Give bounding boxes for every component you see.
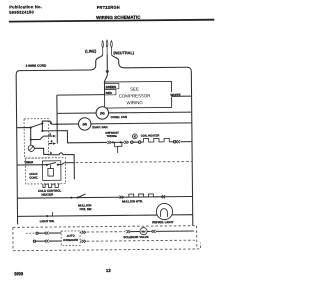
wire to right bus (181, 141, 192, 143)
icemaker right out row 2 (80, 240, 81, 242)
svg-text:COIL HEATER: COIL HEATER (141, 133, 160, 137)
svg-text:(M): (M) (100, 111, 105, 115)
node dot (120, 141, 122, 143)
dashed cabinet line top of machine compartment (13, 226, 197, 228)
plug prong neutral (111, 41, 113, 55)
node junction evap (56, 123, 58, 125)
wire (133, 141, 138, 143)
node dot (46, 164, 48, 166)
svg-text:REFRIG. LIGHT: REFRIG. LIGHT (152, 220, 173, 224)
dashed cabinet border right (196, 226, 198, 249)
lamp refrigerator light (156, 203, 172, 219)
timer switch arm (31, 123, 43, 127)
cold control dashed enclosure (25, 158, 65, 184)
label box GREEN (104, 84, 118, 89)
wire cold control input from bus (17, 164, 47, 166)
wire lamp to bus (172, 214, 193, 216)
svg-text:2: 2 (50, 121, 52, 125)
svg-text:RED: RED (106, 91, 113, 95)
wire timer selector to defrost contact (41, 123, 43, 130)
svg-text:WIRING: WIRING (126, 100, 143, 105)
svg-text:COMPRESSOR: COMPRESSOR (119, 93, 151, 98)
svg-text:HEATER: HEATER (41, 193, 54, 197)
svg-text:(NEUTRAL): (NEUTRAL) (113, 51, 134, 55)
connector chevrons solenoid right (151, 230, 155, 233)
svg-text:ICEMAKER: ICEMAKER (63, 238, 78, 242)
node dot (41, 130, 43, 132)
wire compressor feed left (57, 94, 105, 96)
connector chevrons solenoid left (126, 230, 130, 233)
svg-text:FRT22RGH: FRT22RGH (97, 5, 120, 10)
terminal circle (138, 141, 140, 143)
cold control switch arm (47, 163, 56, 165)
svg-text:COND. FAN: COND. FAN (111, 115, 128, 119)
wire contact 3 to cold control (49, 153, 75, 180)
svg-text:SOLENOID VALVE: SOLENOID VALVE (123, 235, 148, 239)
svg-text:MULLION HTR.: MULLION HTR. (122, 199, 143, 203)
resistor defrost coil heater (141, 138, 174, 142)
svg-text:WV: WV (141, 229, 145, 233)
wire (147, 230, 150, 232)
wire timer common down (30, 128, 32, 146)
wire vertical feeder (56, 95, 58, 143)
wire condenser fan row (57, 112, 192, 113)
wire contact 1 out (31, 136, 53, 140)
icemaker left feed row 2 (33, 240, 35, 242)
wire solenoid to right (156, 230, 194, 232)
connector chevrons mullion left (120, 196, 124, 199)
contact numbers 2 1 4 3 (49, 121, 53, 155)
dashed compartment divider (76, 162, 192, 163)
svg-text:3 WIRE CORD: 3 WIRE CORD (26, 64, 47, 68)
mullion freezer switch (70, 197, 72, 199)
solenoid water valve (140, 228, 147, 235)
plug prong line (102, 41, 104, 55)
wire contact 4 stub (49, 143, 53, 145)
motor evaporator fan (78, 118, 91, 131)
defrost thermostat bimetal (115, 142, 122, 153)
terminal circle (173, 141, 175, 143)
wire neutral cord to right bus (112, 54, 193, 227)
connector chevrons defrost left (107, 141, 111, 144)
timer motor (28, 145, 34, 151)
label box RED (104, 90, 115, 95)
plug prong ground (106, 40, 108, 54)
terminal circle (131, 141, 133, 143)
wire mullion heater row (17, 197, 192, 199)
icemaker left feed row 1 (26, 232, 36, 234)
node dot (112, 141, 114, 143)
wire evaporator fan row (57, 123, 192, 124)
svg-text:5995324150: 5995324150 (9, 10, 34, 15)
resistor cold control heater (43, 184, 60, 188)
resistor mullion heater (127, 194, 158, 197)
label MULLION FRZ. SW (78, 203, 92, 211)
connector chevrons mullion right (161, 195, 165, 198)
wire (131, 231, 140, 233)
wire cold control output (58, 163, 74, 165)
svg-text:CONT.: CONT. (29, 176, 38, 180)
svg-text:4: 4 (51, 140, 53, 144)
wire line cord from plug to left bus (16, 54, 104, 224)
thermal cutout K (132, 134, 137, 139)
dashed wire to solenoid (87, 231, 125, 233)
label DEFROST THERM. (105, 131, 119, 138)
dashed nub bottom right (197, 243, 201, 249)
node dot (30, 126, 32, 128)
timer dashed enclosure (24, 119, 49, 159)
svg-text:(M): (M) (82, 122, 87, 126)
wire (114, 141, 124, 143)
label COLD CONT. (29, 172, 38, 180)
wire compressor to right bus (172, 95, 192, 97)
cold control box (42, 161, 60, 181)
svg-text:FRZ. SW: FRZ. SW (80, 207, 92, 211)
compressor box (104, 81, 171, 108)
label AUTO ICEMAKER (63, 234, 78, 242)
dashed wire row 2 (87, 240, 195, 241)
svg-text:12: 12 (106, 268, 111, 273)
wire ground prong to arrow (106, 54, 108, 70)
label WHITE (170, 92, 184, 97)
text SEE COMPRESSOR WIRING (119, 86, 151, 105)
wire light row (18, 215, 158, 216)
svg-text:SEE: SEE (130, 87, 139, 92)
dashed cabinet border left (12, 227, 14, 250)
connector chevrons (124, 141, 128, 144)
header rule (9, 20, 214, 22)
wire contact 2 out (42, 121, 57, 124)
svg-text:WIRING SCHEMATIC: WIRING SCHEMATIC (96, 15, 141, 20)
svg-text:9/99: 9/99 (14, 271, 23, 276)
node dot (30, 138, 32, 140)
header publication number text (9, 4, 42, 15)
svg-text:GREEN: GREEN (105, 85, 116, 89)
svg-text:LIGHT SW.: LIGHT SW. (40, 219, 55, 223)
connector chevrons defrost right (176, 140, 180, 143)
svg-text:THERM.: THERM. (106, 134, 117, 138)
icemaker right out row 1 (80, 231, 81, 233)
svg-text:(LINE): (LINE) (85, 49, 97, 53)
icemaker dashed box (61, 231, 80, 246)
ground arrow (105, 70, 109, 74)
light switch (46, 215, 48, 217)
node dot (57, 164, 59, 166)
label COLD CONTROL HEATER (38, 189, 62, 197)
wire defrost tap (42, 130, 107, 143)
cold control bellows (48, 165, 54, 176)
wire timer motor (34, 148, 48, 154)
svg-text:EVAP. FAN: EVAP. FAN (92, 125, 107, 129)
node dot (41, 122, 43, 124)
motor condenser fan (96, 107, 109, 120)
svg-text:1: 1 (49, 132, 51, 136)
wire timer input from bus (17, 127, 31, 129)
wire ground to green terminal (104, 74, 107, 83)
contact 1 arrow (53, 135, 56, 137)
dashed cabinet border bottom (13, 249, 197, 251)
contact 4 arrow (53, 142, 56, 144)
